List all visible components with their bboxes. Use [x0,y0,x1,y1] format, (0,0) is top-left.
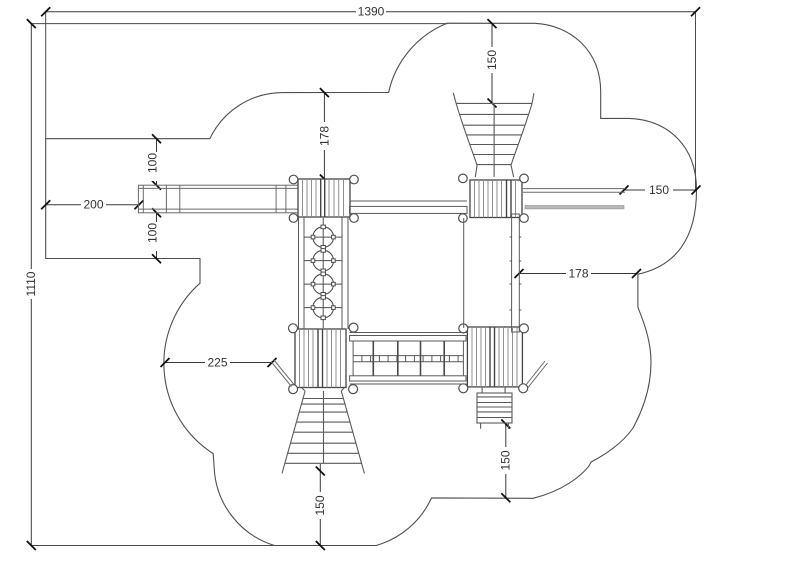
extension line bottom horizontal y=545.5 (1110 bottom end) [31,545,376,547]
diagonal pole at bottom-left tower [271,360,294,387]
grey bar right of top-right tower [525,206,624,209]
corner posts top-right tower [459,174,529,222]
svg-text:1110: 1110 [24,271,38,296]
dimension extension lines [31,12,695,546]
svg-text:150: 150 [485,50,499,70]
round step 3 [313,274,334,295]
dimension 100 upper (notch to slide) [156,139,158,185]
dimension 150 right (bar end to zone edge) [624,189,645,191]
svg-text:178: 178 [568,266,588,280]
extension line left vertical x=45.7 (1390 left end) [45,12,47,139]
pole bars right of top-right tower [523,189,625,193]
diagonal pole at bottom-right tower [526,361,548,388]
svg-text:1390: 1390 [358,5,385,19]
svg-text:100: 100 [146,223,160,243]
safety zone blob outline [46,23,697,545]
dimension 150 bottom-right (ladder to zone bottom) [505,424,507,447]
dimension 178 top (zone edge to tower) [323,93,325,122]
tick 1390 left [41,7,50,16]
dimension 200 (notch to slide end) [46,204,81,206]
tower platform bottom-right [467,327,522,387]
extension line top horizontal y=23.6 (1110 top end) [31,23,447,25]
svg-text:200: 200 [83,198,103,212]
tower platform bottom-left [295,329,346,388]
dimension 150 top (zone top to net) [491,24,493,47]
extension line right vertical x=695.5 (1390 right end) [695,12,697,190]
right ramp element [464,214,522,332]
dimension 1110 left [30,24,32,546]
dimension 150 bottom-left (stairs to zone bottom) [319,464,321,492]
dimension 100 lower (slide to notch bottom) [156,213,158,259]
step tabs [311,225,335,249]
round step 2 [313,250,334,271]
funnel net top-right [453,93,534,177]
bottom bridge between bottom towers [350,333,468,385]
tick 1390 right [691,7,700,16]
svg-text:100: 100 [146,153,160,173]
svg-text:150: 150 [649,183,669,197]
svg-text:225: 225 [207,355,227,369]
top bridge between top towers [350,201,467,213]
climbing steps element left (4 round steps) [299,217,349,329]
svg-text:178: 178 [317,126,331,146]
corner posts top-left tower [289,175,358,222]
svg-text:150: 150 [499,450,513,470]
funnel stairs bottom-left [282,388,364,473]
tick 1110 top [27,19,36,28]
dimension 178 right (tower to zone edge) [519,273,566,275]
tower platform top-right [470,180,522,218]
tick 1110 bottom [27,541,36,550]
tower platform top-left [298,179,350,217]
round step 1 [313,227,334,248]
round step 4 [313,297,334,318]
corner posts bottom-left tower [289,323,359,394]
ladder bottom-right [477,387,512,429]
svg-text:150: 150 [313,495,327,515]
dimension 225 (zone edge to tower post) [165,362,205,364]
slide left (plan) [138,185,298,213]
dimension 1390 top [46,11,696,13]
corner posts bottom-right tower [459,324,529,393]
